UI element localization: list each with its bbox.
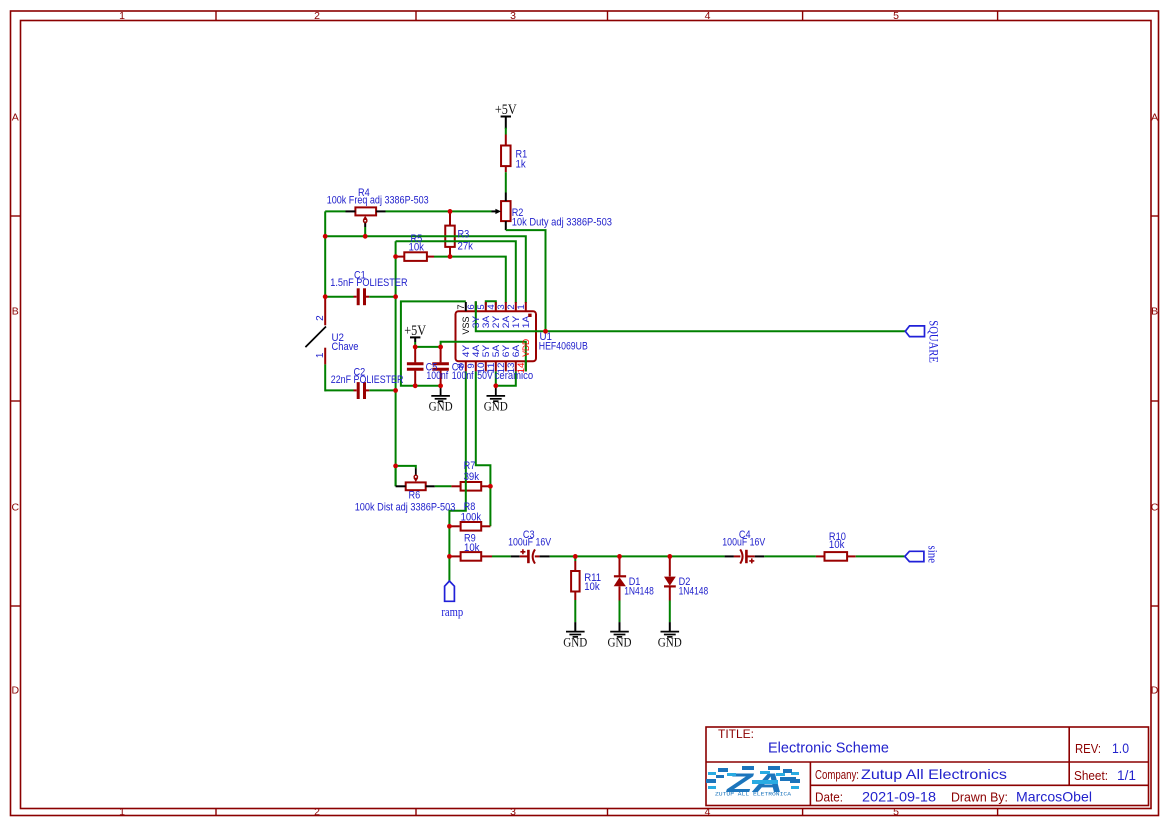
wire R11 leads: [574, 556, 576, 561]
junction C6 top / VDD rail: [438, 345, 443, 350]
resistor R5 body: [404, 252, 427, 261]
potentiometer R2 body: [501, 201, 511, 221]
ground stem C6: [440, 386, 442, 396]
wire R3 top lead: [449, 211, 451, 225]
svg-text:5: 5: [893, 10, 899, 22]
wire net row y=236 to U1 pin 1: [325, 236, 526, 303]
U1 pin 7 (VSS): [465, 302, 467, 311]
svg-text:10k Duty adj 3386P-503: 10k Duty adj 3386P-503: [512, 216, 612, 228]
U1 pin 1 marker: [528, 314, 531, 317]
wire R8 left down to R9 and ramp port: [448, 526, 450, 581]
junction R3 bottom / R5 right: [448, 254, 453, 259]
svg-text:MarcosObel: MarcosObel: [1016, 789, 1092, 805]
wire U1 pin5-pin4 arch: [486, 301, 496, 305]
svg-text:2: 2: [314, 10, 320, 22]
svg-text:D: D: [12, 685, 20, 697]
wire R2 bottom to SQUARE node: [505, 221, 507, 230]
junction R11 top: [573, 554, 578, 559]
svg-text:1Y: 1Y: [511, 316, 521, 329]
wire vertical rail x=395.6: [395, 241, 397, 486]
svg-text:SQUARE: SQUARE: [927, 320, 941, 363]
ground GND under U1 pins: [487, 396, 506, 401]
wire into C4: [725, 555, 734, 557]
junction C6 bottom / GND: [438, 383, 443, 388]
wire U2 pin 1 lead: [324, 348, 326, 365]
svg-text:REV:: REV:: [1075, 741, 1101, 756]
svg-text:R3: R3: [458, 228, 470, 240]
junction R3 top / R2 wiper: [448, 209, 453, 214]
junction +5V / C5 top: [413, 345, 418, 350]
svg-text:C: C: [12, 502, 20, 514]
svg-text:1/1: 1/1: [1117, 767, 1136, 783]
svg-text:5A: 5A: [491, 345, 501, 358]
svg-text:Company:: Company:: [815, 768, 859, 782]
U1 pin 6 (3Y): [475, 302, 477, 311]
R4 wiper arrow: [363, 216, 368, 220]
svg-text:B: B: [12, 306, 19, 318]
svg-text:2: 2: [315, 315, 326, 321]
diode D1: [614, 575, 626, 577]
wire C4 to R10: [746, 555, 755, 557]
potentiometer R6 body: [406, 482, 426, 490]
svg-text:1: 1: [516, 304, 527, 309]
svg-text:1: 1: [119, 10, 125, 22]
svg-text:GND: GND: [484, 400, 508, 414]
svg-text:2Y: 2Y: [491, 316, 501, 329]
wire R4 to R2 wiper arrow: [376, 210, 385, 212]
wire net row y=241 to U1 pin 2: [396, 241, 516, 303]
svg-text:GND: GND: [563, 635, 587, 649]
ground GND under C6: [431, 396, 450, 401]
ground GND under R11: [566, 632, 585, 637]
svg-text:1N4148: 1N4148: [679, 585, 709, 597]
capacitor C2 plates: [358, 382, 364, 399]
wire C3 to R11 node: [535, 555, 540, 557]
ground GND under D2: [661, 632, 680, 637]
junction C1 left: [323, 294, 328, 299]
svg-text:1A: 1A: [521, 316, 531, 329]
svg-text:3: 3: [510, 806, 516, 818]
svg-text:3Y: 3Y: [471, 316, 481, 329]
svg-text:Sheet:: Sheet:: [1074, 769, 1108, 783]
resistor R3 body: [445, 226, 455, 247]
wire U2 pin 2 lead: [324, 297, 326, 326]
U1 pin 13 (6A): [515, 361, 517, 371]
svg-text:C: C: [1151, 502, 1159, 514]
junction rail / R6: [393, 464, 398, 469]
svg-text:1: 1: [119, 806, 125, 818]
svg-text:TITLE:: TITLE:: [718, 729, 754, 741]
wire left rail vertical: [324, 211, 326, 297]
U1 pin 2 (1Y): [515, 302, 517, 311]
svg-text:4: 4: [705, 806, 711, 818]
junction rail / R5 left: [393, 254, 398, 259]
wire VSS pin7 to C5/C6 ground net: [401, 301, 466, 385]
U1 pin 1 (1A): [525, 302, 527, 311]
svg-text:1: 1: [315, 352, 326, 358]
svg-text:1N4148: 1N4148: [624, 585, 654, 597]
wire R4 wiper stem: [364, 222, 366, 228]
svg-text:10k: 10k: [409, 241, 425, 253]
wire overlay pin 6: [475, 301, 477, 312]
U1 pin 3 (2A): [505, 302, 507, 311]
junction D2 top: [667, 554, 672, 559]
U1 pin 11 (5A): [495, 361, 497, 371]
wire R8 leads: [449, 525, 459, 527]
resistor R7 body: [461, 482, 482, 491]
svg-text:100uF 16V: 100uF 16V: [722, 536, 766, 548]
svg-text:6A: 6A: [511, 345, 521, 358]
svg-text:GND: GND: [608, 635, 632, 649]
wire +5V to R1: [505, 117, 507, 129]
wire R5 right to U1 pin 3: [427, 256, 434, 258]
U1 pin 10 (5Y): [485, 361, 487, 371]
port sine: [905, 551, 924, 561]
capacitor C1 plates: [358, 288, 364, 305]
wire C5 top to C6 top: [415, 346, 440, 348]
wire D1 leads: [619, 556, 621, 576]
wire left rail to R4: [325, 210, 345, 212]
svg-text:10k: 10k: [464, 542, 480, 554]
svg-text:6Y: 6Y: [501, 345, 511, 358]
R6 wiper arrow: [413, 478, 418, 482]
port ramp: [445, 581, 455, 601]
wire R1 to R2: [505, 166, 507, 172]
svg-text:4A: 4A: [471, 345, 481, 358]
wire R5 left lead: [396, 256, 405, 258]
svg-text:VSS: VSS: [461, 316, 471, 334]
svg-text:22nF POLIESTER: 22nF POLIESTER: [331, 374, 404, 386]
svg-text:100nf: 100nf: [452, 370, 475, 382]
wire R9 leads: [449, 555, 460, 557]
junction pins 11-13 GND: [493, 383, 498, 388]
svg-text:ramp: ramp: [441, 604, 463, 619]
wire +5V symbol to C5 top: [414, 337, 416, 342]
U1 pin 4 (2Y): [495, 302, 497, 311]
svg-text:HEF4069UB: HEF4069UB: [539, 341, 588, 353]
ground stem U1: [495, 386, 497, 396]
U1 pin 9 (4A): [475, 361, 477, 371]
svg-text:100k: 100k: [461, 511, 482, 523]
wire overlay pin 14: [525, 361, 527, 372]
svg-text:27k: 27k: [458, 240, 474, 252]
junction R9 left / ramp: [447, 554, 452, 559]
svg-text:Electronic Scheme: Electronic Scheme: [768, 740, 889, 757]
svg-text:100k Dist adj 3386P-503: 100k Dist adj 3386P-503: [355, 502, 456, 514]
svg-text:1k: 1k: [516, 159, 527, 171]
svg-text:100uF 16V: 100uF 16V: [508, 536, 552, 548]
resistor R1 body: [501, 146, 511, 167]
U1 pin 14 (VDD): [525, 361, 527, 371]
svg-text:5Y: 5Y: [481, 345, 491, 358]
svg-text:4: 4: [705, 10, 711, 22]
junction R7 right: [488, 484, 493, 489]
svg-text:B: B: [1151, 306, 1158, 318]
resistor R8 body: [461, 522, 482, 531]
junction R8 left: [447, 524, 452, 529]
resistor R11 body: [571, 571, 580, 592]
svg-text:1.5nF POLIESTER: 1.5nF POLIESTER: [330, 277, 407, 289]
svg-text:39k: 39k: [464, 471, 480, 483]
junction SQUARE net / R2 bottom: [543, 329, 548, 334]
svg-text:A: A: [1151, 112, 1158, 124]
svg-text:100k Freq adj 3386P-503: 100k Freq adj 3386P-503: [327, 194, 429, 206]
wire U1 pin 13 to gnd: [496, 371, 516, 386]
junction left rail / R4 row: [323, 234, 328, 239]
svg-text:2: 2: [314, 806, 320, 818]
wire R3 bottom lead: [449, 247, 451, 257]
junction D1 top: [617, 554, 622, 559]
wire U1 pin 6 to SQUARE port: [476, 301, 906, 331]
wire R7 right lead: [481, 485, 490, 487]
IC U1 HEF4069UB body: [456, 311, 537, 361]
wire C6 leads: [440, 347, 442, 363]
wire U1 pin 8 to R8 left: [449, 371, 465, 526]
wire C5 leads: [414, 347, 416, 363]
svg-text:A: A: [12, 112, 19, 124]
svg-text:4Y: 4Y: [461, 345, 471, 358]
wire D2 leads: [669, 556, 671, 576]
port SQUARE: [905, 326, 924, 337]
wire U1 pin 9 to R7 right: [476, 371, 491, 526]
svg-text:2A: 2A: [501, 316, 511, 329]
U1 pin 12 (6Y): [505, 361, 507, 371]
svg-text:Drawn By:: Drawn By:: [951, 790, 1008, 805]
svg-text:Zutup All Electronics: Zutup All Electronics: [861, 766, 1007, 782]
capacitor C3 polarized plates: [527, 550, 530, 563]
svg-text:Date:: Date:: [815, 790, 843, 805]
svg-text:GND: GND: [429, 400, 453, 414]
wire into C3: [511, 555, 520, 557]
svg-text:sine: sine: [925, 546, 939, 564]
wire R6 right to R7 left: [426, 485, 435, 487]
capacitor C4 polarized plates: [740, 549, 742, 563]
svg-text:3A: 3A: [481, 316, 491, 329]
svg-text:GND: GND: [658, 635, 682, 649]
svg-text:D: D: [1151, 685, 1159, 697]
resistor R9 body: [461, 552, 482, 561]
junction C5 bottom: [413, 383, 418, 388]
wire C1 net: [325, 296, 353, 298]
junction C2 right: [393, 388, 398, 393]
svg-text:R6: R6: [409, 489, 421, 501]
junction R4 wiper: [363, 234, 368, 239]
capacitor C6 plates: [432, 364, 449, 369]
svg-text:10k: 10k: [584, 581, 600, 593]
svg-text:2021-09-18: 2021-09-18: [862, 789, 936, 805]
svg-text:100nf: 100nf: [426, 370, 449, 382]
capacitor C5 plates: [407, 364, 424, 369]
ground GND under D1: [610, 632, 629, 637]
resistor R10 body: [825, 552, 848, 561]
wire R10 to sine port: [847, 555, 856, 557]
junction C1 right: [393, 294, 398, 299]
wire U1 pin 11 to gnd: [495, 371, 497, 386]
wire C2 net: [325, 389, 353, 391]
svg-text:10k: 10k: [829, 539, 845, 551]
U1 pin 8 (4Y): [465, 361, 467, 371]
diode D2: [664, 577, 676, 586]
wire rail to R6 left: [395, 466, 397, 486]
wire +5V rail to U1 VDD pin 14: [441, 342, 526, 372]
U1 pin 5 (3A): [485, 302, 487, 311]
wire rail to R6 wiper: [396, 466, 416, 469]
svg-text:VDD: VDD: [521, 339, 531, 357]
wire bottom net R11-D1-D2-C4: [575, 555, 724, 557]
svg-text:3: 3: [510, 10, 516, 22]
svg-text:1.0: 1.0: [1112, 740, 1129, 756]
svg-text:Chave: Chave: [332, 341, 359, 353]
svg-text:5: 5: [893, 806, 899, 818]
potentiometer R4 body: [355, 207, 376, 215]
svg-text:ZUTUP ALL ELETRONICA: ZUTUP ALL ELETRONICA: [715, 791, 792, 798]
switch U2 blade: [305, 327, 326, 348]
